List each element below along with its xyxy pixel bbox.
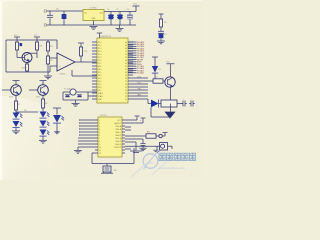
svg-text:www.elecfans.com: www.elecfans.com (159, 166, 185, 170)
svg-text:PSEN: PSEN (137, 64, 142, 66)
svg-text:31: 31 (125, 69, 127, 71)
svg-text:24: 24 (125, 90, 127, 92)
svg-text:P3.5: P3.5 (98, 84, 102, 86)
svg-text:R7: R7 (18, 104, 20, 106)
svg-text:R9: R9 (155, 76, 157, 78)
svg-text:P1.1: P1.1 (98, 45, 102, 47)
svg-text:P1.5: P1.5 (98, 57, 102, 59)
svg-text:P3.4: P3.4 (98, 81, 102, 83)
svg-text:P3.7: P3.7 (98, 90, 102, 92)
svg-text:Y1 12M: Y1 12M (64, 89, 71, 91)
svg-text:37: 37 (125, 51, 127, 53)
svg-text:30: 30 (125, 72, 127, 74)
svg-text:SW: SW (114, 170, 117, 172)
svg-text:21: 21 (125, 99, 127, 101)
svg-text:33: 33 (125, 63, 127, 65)
svg-text:VCC: VCC (166, 61, 171, 63)
svg-text:P1.4: P1.4 (98, 54, 102, 56)
svg-text:GND: GND (92, 18, 97, 20)
svg-text:P1.0: P1.0 (98, 42, 102, 44)
svg-text:38: 38 (125, 48, 127, 50)
svg-text:C4: C4 (127, 9, 129, 11)
svg-text:SEG-D: SEG-D (115, 135, 121, 137)
svg-text:CLK/CLR: CLK/CLR (114, 147, 122, 149)
svg-text:28: 28 (125, 78, 127, 80)
svg-text:D11: D11 (62, 119, 65, 121)
svg-text:26: 26 (125, 84, 127, 86)
svg-text:25: 25 (125, 87, 127, 89)
svg-text:P3.1: P3.1 (98, 72, 102, 74)
svg-text:32: 32 (125, 66, 127, 68)
svg-text:C3: C3 (116, 9, 118, 11)
svg-text:22: 22 (125, 96, 127, 98)
svg-text:40: 40 (125, 42, 127, 44)
svg-text:P3.3: P3.3 (98, 78, 102, 80)
svg-text:C2: C2 (107, 9, 109, 11)
svg-text:VCC: VCC (133, 4, 138, 6)
svg-text:U3 164: U3 164 (100, 115, 107, 117)
svg-text:36: 36 (125, 54, 127, 56)
svg-text:SEG-B: SEG-B (116, 129, 122, 131)
svg-text:QH/OUT: QH/OUT (114, 123, 122, 125)
svg-text:P3.6: P3.6 (98, 87, 102, 89)
svg-text:Vin: Vin (85, 13, 88, 15)
svg-text:-: - (59, 57, 60, 60)
svg-text:35: 35 (125, 57, 127, 59)
svg-text:P3.2: P3.2 (98, 75, 102, 77)
svg-text:P1.6: P1.6 (98, 60, 102, 62)
svg-text:U1 7805: U1 7805 (89, 8, 97, 10)
svg-text:23: 23 (125, 93, 127, 95)
svg-text:P1.7: P1.7 (98, 63, 102, 65)
svg-text:9012: 9012 (9, 97, 13, 99)
svg-text:27: 27 (125, 81, 127, 83)
svg-text:Q9013: Q9013 (21, 68, 26, 70)
svg-text:34: 34 (125, 60, 127, 62)
svg-text:R8: R8 (45, 103, 47, 105)
svg-text:SEG-G: SEG-G (115, 144, 121, 146)
svg-text:29: 29 (125, 75, 127, 77)
svg-text:SEG-F: SEG-F (116, 141, 121, 143)
svg-text:RST: RST (98, 66, 101, 68)
svg-text:9012: 9012 (36, 97, 40, 99)
svg-text:LM358: LM358 (60, 74, 66, 76)
svg-text:P1.3: P1.3 (98, 51, 102, 53)
svg-text:39: 39 (125, 45, 127, 47)
svg-text:D8: D8 (159, 69, 161, 71)
svg-text:SEG-E: SEG-E (116, 138, 122, 140)
svg-text:P3.0: P3.0 (98, 69, 102, 71)
svg-text:P1.2: P1.2 (98, 48, 102, 50)
svg-text:SEG-C: SEG-C (115, 132, 121, 134)
